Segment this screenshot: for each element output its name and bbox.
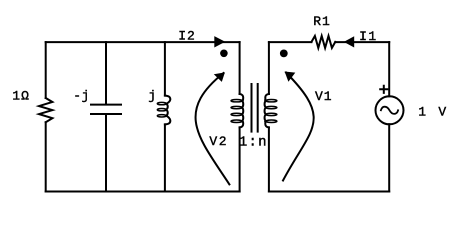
sine wave inside source	[381, 107, 398, 114]
wire: right loop bottom	[269, 191, 389, 193]
svg-text:V2: V2	[209, 134, 228, 149]
svg-text:1:n: 1:n	[239, 134, 268, 150]
wire: left loop bottom	[46, 191, 240, 193]
transformer core line 1	[251, 84, 253, 132]
svg-text:-j: -j	[73, 89, 90, 104]
plus sign of source	[380, 86, 387, 93]
svg-text:V1: V1	[315, 89, 333, 104]
svg-text:R1: R1	[313, 14, 331, 29]
svg-text:1: 1	[418, 104, 427, 119]
svg-text:1Ω: 1Ω	[12, 89, 30, 104]
wire: right loop top right segment	[335, 41, 389, 43]
transformer T1 right winding	[268, 42, 270, 94]
voltage source 1V	[388, 42, 390, 96]
wire: right loop top left segment	[269, 41, 312, 43]
resistor 1Ω (left branch)	[45, 42, 47, 98]
svg-text:V: V	[438, 104, 447, 119]
inductor j	[164, 42, 166, 96]
capacitor -j	[105, 42, 107, 104]
transformer T1 left winding	[239, 42, 241, 94]
voltage arrow V1	[283, 73, 314, 181]
voltage arrow V2	[196, 73, 230, 184]
transformer core line 2	[257, 84, 259, 132]
svg-text:j: j	[148, 89, 157, 104]
polarity dot left winding	[220, 50, 228, 58]
wire: left loop top	[46, 41, 240, 43]
svg-text:I2: I2	[178, 29, 196, 44]
resistor R1	[312, 36, 336, 48]
current arrow I2	[214, 36, 225, 47]
polarity dot right winding	[280, 50, 288, 58]
svg-text:I1: I1	[359, 29, 378, 44]
current arrow I1	[344, 36, 354, 47]
